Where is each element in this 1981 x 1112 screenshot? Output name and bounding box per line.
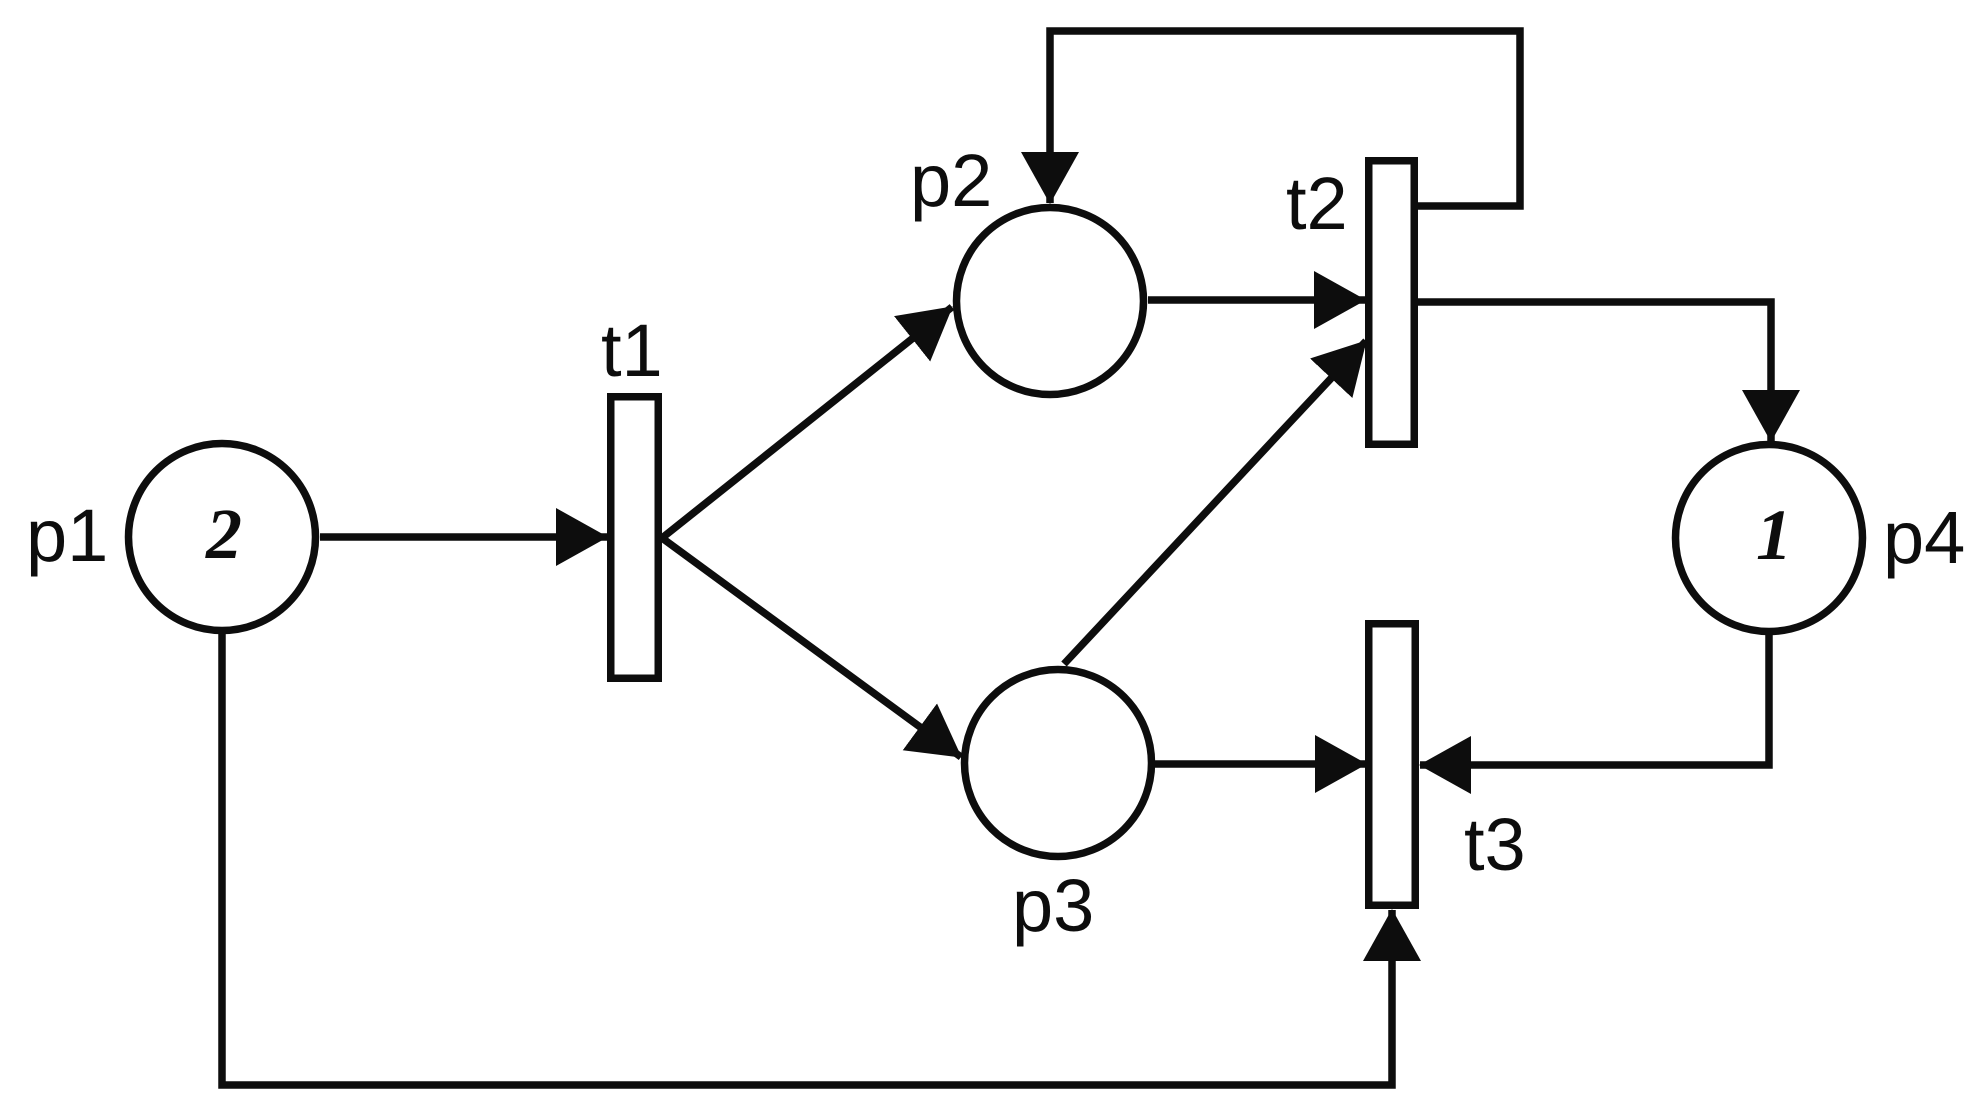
transition t3	[1369, 624, 1416, 906]
place p1	[129, 444, 316, 631]
svg-text:p3: p3	[1012, 864, 1094, 947]
place p3	[965, 670, 1152, 857]
svg-text:p1: p1	[26, 494, 108, 577]
arc t1 to p2	[662, 307, 952, 538]
svg-text:t2: t2	[1286, 162, 1348, 245]
transition t1	[611, 397, 659, 679]
svg-text:2: 2	[205, 494, 242, 574]
arc t2 to p2 (top loop)	[1050, 31, 1520, 206]
place p2	[957, 208, 1144, 395]
svg-text:t3: t3	[1464, 803, 1526, 886]
arc t1 to p3	[662, 538, 961, 757]
place p4	[1676, 445, 1863, 632]
arc p2 to t2	[1148, 296, 1365, 304]
transition t2	[1369, 161, 1415, 445]
arc p1 to t1	[320, 533, 607, 541]
arc p3 to t2	[1064, 341, 1366, 664]
svg-text:t1: t1	[601, 309, 663, 392]
arc p4 to t3	[1420, 633, 1769, 765]
arc t2 to p4	[1418, 302, 1771, 441]
arc p1 to t3 (bottom loop)	[222, 634, 1392, 1085]
svg-text:p2: p2	[910, 139, 992, 222]
arc p3 to t3	[1155, 760, 1366, 768]
svg-text:1: 1	[1756, 495, 1792, 575]
svg-text:p4: p4	[1883, 496, 1965, 579]
